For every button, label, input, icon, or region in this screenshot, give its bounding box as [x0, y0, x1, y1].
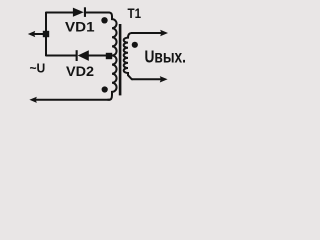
output arrow lower — [160, 76, 168, 82]
phase dot secondary — [132, 42, 138, 48]
wire top (left segment to VD1) — [46, 12, 74, 14]
diode VD2 — [76, 50, 78, 61]
node A junction — [43, 31, 49, 37]
core of T1 — [119, 24, 122, 95]
phase dot primary top — [101, 17, 107, 23]
svg-text:T1: T1 — [128, 5, 142, 21]
output arrow upper — [160, 30, 168, 36]
wire VD2 row right — [89, 55, 108, 57]
svg-text:Uвых.: Uвых. — [145, 47, 187, 67]
wire output lower — [133, 78, 162, 80]
wire output upper — [131, 32, 162, 34]
wire VD2 row left — [46, 55, 77, 57]
svg-text:VD2: VD2 — [66, 63, 94, 79]
input arrow lower — [29, 97, 36, 103]
wire left vertical branch — [45, 12, 47, 57]
node B junction (primary center tap) — [106, 53, 112, 59]
diode VD1 — [73, 8, 84, 17]
svg-text:~U: ~U — [30, 61, 46, 75]
secondary winding of T1 — [124, 33, 133, 79]
svg-text:VD1: VD1 — [65, 19, 95, 35]
primary winding of T1 — [108, 13, 117, 100]
wire top (VD1 cathode to transformer) — [86, 12, 108, 14]
phase dot primary bottom — [102, 86, 108, 92]
wire input terminal upper — [34, 33, 47, 35]
input arrow upper — [28, 31, 35, 37]
wire bottom — [34, 99, 111, 101]
